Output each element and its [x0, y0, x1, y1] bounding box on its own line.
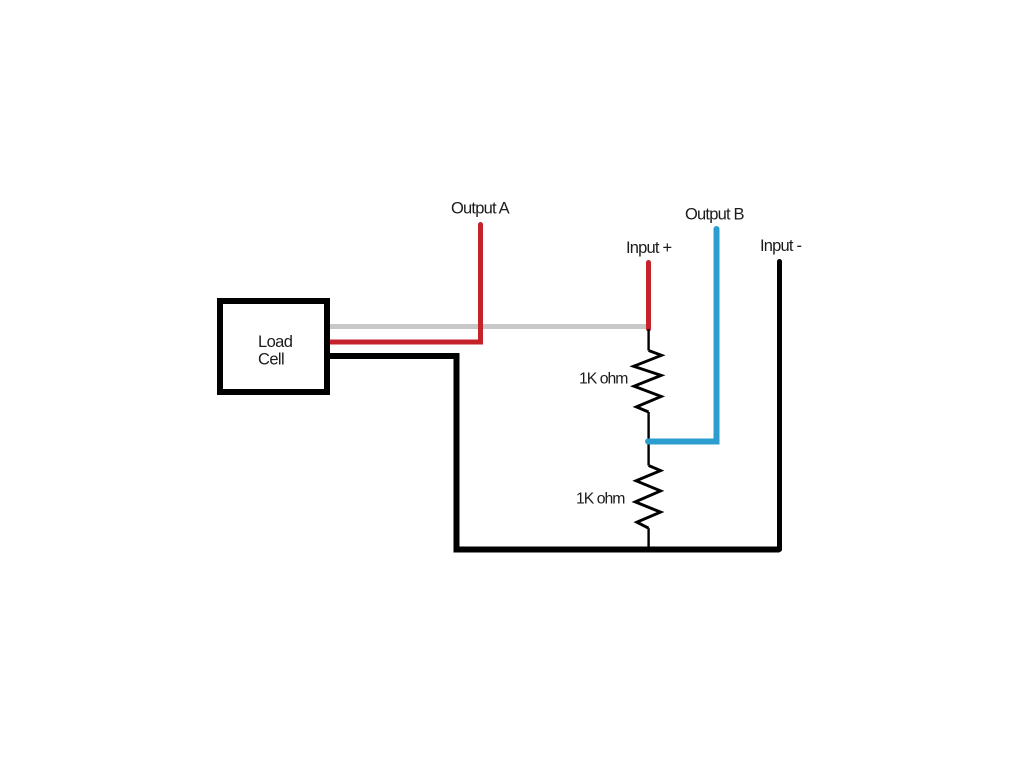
svg-text:1K ohm: 1K ohm [576, 491, 625, 508]
svg-text:Output A: Output A [451, 200, 510, 218]
wire: thin lead from Input+ node into resistor R1 [647, 329, 649, 351]
svg-text:Input +: Input + [626, 239, 671, 257]
svg-text:Cell: Cell [258, 351, 284, 369]
wire: blue Output B down to resistor midpoint [648, 229, 717, 442]
wire: red Input + vertical [646, 263, 651, 330]
wire: black wire Load Cell to bottom rail and Input - rail [328, 356, 780, 550]
wire: red Output A from Load Cell up [328, 225, 481, 343]
wire: thin lead between R1 and R2 through blue junction [647, 412, 649, 466]
wire: Input - vertical black wire [777, 262, 782, 550]
wire: thin lead from R2 to bottom rail [647, 528, 649, 549]
svg-text:Input -: Input - [760, 237, 801, 255]
wire: gray sense wire from Load Cell to Input + node [327, 324, 649, 329]
resistor R2 (1K ohm) zigzag [635, 466, 660, 529]
Load Cell box [220, 301, 327, 392]
svg-text:Load: Load [258, 333, 293, 351]
svg-text:Output B: Output B [685, 206, 745, 224]
svg-text:1K ohm: 1K ohm [579, 371, 628, 388]
resistor R1 (1K ohm) zigzag [634, 351, 662, 413]
